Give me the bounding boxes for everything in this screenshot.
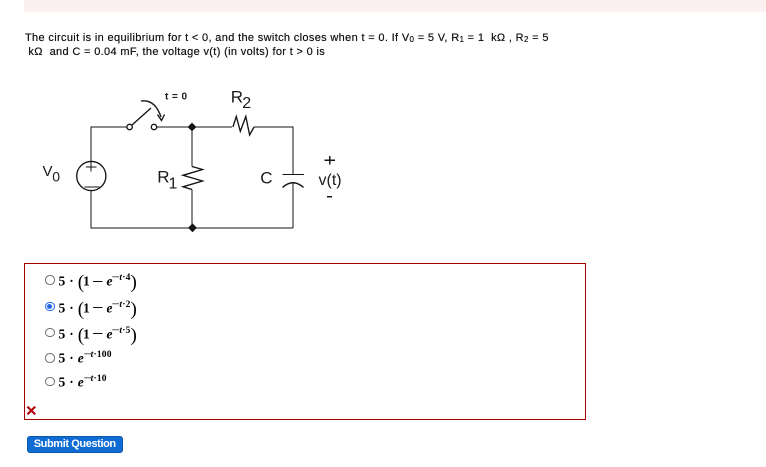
- svg-text:v(t): v(t): [319, 172, 342, 189]
- svg-text:R: R: [231, 87, 243, 106]
- svg-text:t = 0: t = 0: [165, 92, 188, 103]
- svg-text:1: 1: [169, 175, 178, 192]
- svg-text:C: C: [260, 169, 272, 188]
- svg-text:0: 0: [52, 169, 60, 185]
- svg-text:2: 2: [242, 95, 251, 112]
- svg-text:V: V: [43, 163, 53, 180]
